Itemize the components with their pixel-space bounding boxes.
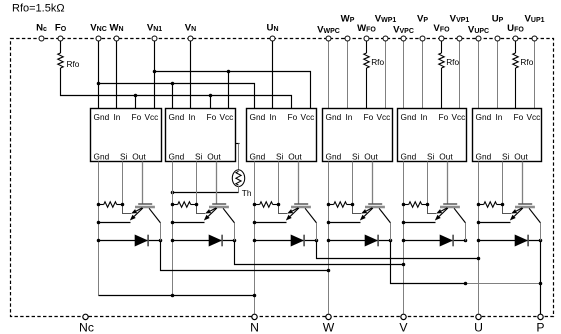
terminal node N (bottom)	[252, 314, 257, 319]
terminal node VNC (top)	[96, 36, 101, 41]
svg-text:V: V	[399, 321, 408, 334]
svg-text:In: In	[496, 112, 503, 122]
svg-text:Si: Si	[120, 151, 128, 161]
diode D4 freewheel	[329, 235, 391, 247]
junction rail/R6	[477, 203, 481, 207]
wire U5 Si pin	[427, 162, 429, 205]
diode D6 freewheel	[479, 235, 541, 247]
resistor Rfo (N-side fault output)	[60, 41, 62, 53]
wire U6 Gnd/emitter rail	[478, 162, 480, 314]
transistor Q6 IGBT	[503, 204, 541, 223]
transistor Q4 IGBT	[353, 204, 391, 223]
junction rail/anode D2	[171, 239, 175, 243]
terminal node WFO (top)	[364, 36, 369, 41]
wire U1 Gnd/emitter rail	[98, 162, 100, 296]
svg-text:Fo: Fo	[132, 112, 142, 122]
op-amp/driver IC U6	[473, 109, 542, 162]
svg-text:Gnd: Gnd	[250, 112, 266, 122]
wire Q3 collector to U node	[317, 241, 479, 259]
svg-text:Gnd: Gnd	[326, 112, 342, 122]
wire U5 Gnd/emitter rail	[403, 162, 405, 314]
svg-text:Out: Out	[364, 151, 378, 161]
svg-text:Rfo: Rfo	[446, 57, 459, 67]
terminal node Nc (top)	[39, 36, 44, 41]
svg-text:Th: Th	[242, 188, 252, 198]
svg-text:Out: Out	[207, 151, 221, 161]
diode D1 freewheel	[99, 235, 161, 247]
terminal node VVPC (top)	[401, 36, 406, 41]
op-amp/driver IC U4	[323, 109, 393, 162]
terminal node VWPC (top)	[326, 36, 331, 41]
svg-text:Vcc: Vcc	[220, 112, 234, 122]
junction rail/anode D5	[402, 239, 406, 243]
wire U6 Si pin	[502, 162, 504, 205]
svg-text:Si: Si	[276, 151, 284, 161]
junction rail/R4	[327, 203, 331, 207]
svg-text:Vcc: Vcc	[377, 112, 391, 122]
svg-text:Fo: Fo	[364, 112, 374, 122]
wire WP to U4 In	[347, 41, 349, 108]
wire Q1 collector to W node	[161, 241, 329, 271]
junction rail/anode D1	[97, 239, 101, 243]
junction rail/R2	[171, 203, 175, 207]
wire VN1 to U1 Vcc and Vcc bus to U2,U3	[154, 41, 156, 108]
wire VVPC to U5 Gnd	[403, 41, 405, 108]
svg-text:Gnd: Gnd	[326, 151, 342, 161]
terminal node UFO (top)	[513, 36, 518, 41]
junction cathode D1/collector Q1	[159, 239, 163, 243]
junction R5/Si	[426, 203, 430, 207]
svg-text:Nc: Nc	[79, 321, 94, 334]
op-amp/driver IC U3	[247, 109, 317, 162]
wire VVP1 to U5 Vcc	[459, 41, 461, 108]
svg-text:Si: Si	[352, 151, 360, 161]
svg-text:Fo: Fo	[439, 112, 449, 122]
junction rail/anode D3	[253, 239, 257, 243]
junction rail/R1	[97, 203, 101, 207]
resistor Rfo (WFO)	[364, 53, 369, 68]
wire UFO upper segment	[515, 41, 517, 53]
wire U2 Si pin	[196, 162, 198, 205]
wire U2 Out to gate of Q2	[216, 162, 218, 204]
svg-text:Rfo: Rfo	[371, 57, 384, 67]
transistor Q1 IGBT	[123, 204, 161, 223]
svg-text:Fo: Fo	[288, 112, 298, 122]
svg-text:N: N	[250, 321, 259, 334]
svg-text:W: W	[323, 321, 335, 334]
wire VN to U2 In	[190, 41, 192, 108]
svg-text:Si: Si	[195, 151, 203, 161]
junction rail/anode D6	[477, 239, 481, 243]
resistor Rfo (UFO)	[513, 53, 518, 68]
junction R2/Si	[195, 203, 199, 207]
diode D2 freewheel	[173, 235, 235, 247]
wire VP to U5 In	[422, 41, 424, 108]
wire emitter of Q3 to rail	[255, 222, 287, 224]
svg-text:Rfo: Rfo	[67, 59, 80, 69]
wire U1 Si pin	[122, 162, 124, 205]
junction rail/emitter Q3	[253, 221, 257, 225]
terminal node P (bottom)	[538, 314, 543, 319]
junction cathode D6/collector Q6	[539, 239, 543, 243]
junction R1/Si	[121, 203, 125, 207]
junction R3/Si	[277, 203, 281, 207]
terminal node WP (top)	[345, 36, 350, 41]
svg-text:Gnd: Gnd	[169, 151, 185, 161]
wire Q2 collector to V node	[235, 241, 404, 265]
terminal node VP (top)	[420, 36, 425, 41]
resistor R1 (sense)	[99, 202, 123, 207]
svg-text:Gnd: Gnd	[401, 112, 417, 122]
junction rail/emitter Q4	[327, 221, 331, 225]
wire collector Q2 vertical	[234, 223, 236, 241]
junction rail/emitter Q5	[402, 221, 406, 225]
svg-text:Gnd: Gnd	[401, 151, 417, 161]
wire U1 Out to gate of Q1	[142, 162, 144, 204]
svg-text:Si: Si	[427, 151, 435, 161]
terminal node VVP1 (top)	[457, 36, 462, 41]
thermistor Th	[232, 144, 244, 193]
svg-text:Gnd: Gnd	[476, 151, 492, 161]
op-amp/driver IC U2	[166, 109, 236, 162]
terminal node UN (top)	[270, 36, 275, 41]
wire collector Q1 vertical	[160, 223, 162, 241]
junction rail/anode D4	[327, 239, 331, 243]
svg-text:In: In	[346, 112, 353, 122]
svg-text:Out: Out	[132, 151, 146, 161]
op-amp/driver IC U5	[398, 109, 467, 162]
junction cathode D4/collector Q4	[389, 239, 393, 243]
junction rail/emitter Q2	[171, 221, 175, 225]
svg-text:U: U	[474, 321, 483, 334]
resistor R6 (sense)	[479, 202, 503, 207]
resistor R5 (sense)	[404, 202, 428, 207]
terminal node VUP1 (top)	[532, 36, 537, 41]
wire U3 Gnd/emitter rail	[254, 162, 256, 314]
terminal node U (bottom)	[476, 314, 481, 319]
wire Q6 collector to P terminal	[540, 241, 542, 315]
wire emitter of Q1 to rail	[99, 222, 131, 224]
terminal node VN (top)	[188, 36, 193, 41]
terminal node VWP1 (top)	[383, 36, 388, 41]
wire P bus (common high-side collector)	[391, 241, 467, 284]
junction rail/R5	[402, 203, 406, 207]
junction cathode D2/collector Q2	[233, 239, 237, 243]
wire UP to U6 In	[497, 41, 499, 108]
junction R4/Si	[351, 203, 355, 207]
svg-text:Out: Out	[439, 151, 453, 161]
terminal node FO (top)	[58, 36, 63, 41]
svg-text:Gnd: Gnd	[94, 151, 110, 161]
svg-text:In: In	[421, 112, 428, 122]
wire U5 Out to gate of Q5	[447, 162, 449, 204]
diode D5 freewheel	[404, 235, 466, 247]
wire U4 Gnd/emitter rail	[328, 162, 330, 314]
wire Fo bus to U1,U2,U3 Fo pins	[61, 68, 292, 109]
wire WFO to U4 Fo	[366, 68, 368, 109]
wire collector Q4 vertical	[390, 223, 392, 241]
junction rail/emitter Q1	[97, 221, 101, 225]
wire VFO to U5 Fo	[441, 68, 443, 109]
junction R6/Si	[501, 203, 505, 207]
resistor R2 (sense)	[173, 202, 197, 207]
transistor Q5 IGBT	[428, 204, 466, 223]
wire U6 Out to gate of Q6	[522, 162, 524, 204]
wire U4 Si pin	[352, 162, 354, 205]
svg-text:Gnd: Gnd	[250, 151, 266, 161]
svg-text:In: In	[114, 112, 121, 122]
wire VFO upper segment	[441, 41, 443, 53]
wire VNC to U1 Gnd and Gnd bus to U2,U3	[98, 41, 100, 108]
junction rail/R3	[253, 203, 257, 207]
svg-text:Vcc: Vcc	[145, 112, 159, 122]
wire U2 Gnd/emitter rail	[172, 162, 174, 296]
svg-text:Vcc: Vcc	[452, 112, 466, 122]
op-amp/driver IC U1	[91, 109, 162, 162]
terminal node W (bottom)	[326, 314, 331, 319]
svg-text:Out: Out	[288, 151, 302, 161]
terminal node Nc (bottom)	[83, 314, 88, 319]
svg-text:In: In	[270, 112, 277, 122]
wire WN to U1 In	[116, 41, 118, 108]
svg-text:Gnd: Gnd	[94, 112, 110, 122]
terminal node VFO (top)	[439, 36, 444, 41]
terminal node VUPC (top)	[476, 36, 481, 41]
wire Th to U2 Gnd rail	[173, 192, 239, 194]
resistor Rfo (VFO)	[439, 53, 444, 68]
wire emitter of Q6 to rail	[479, 222, 511, 224]
wire collector Q3 vertical	[316, 223, 318, 241]
wire U3 Si pin	[278, 162, 280, 205]
svg-text:Gnd: Gnd	[169, 112, 185, 122]
junction cathode D3/collector Q3	[315, 239, 319, 243]
svg-text:Rfo: Rfo	[520, 57, 533, 67]
svg-text:In: In	[189, 112, 196, 122]
junction cathode D5/collector Q5	[464, 239, 468, 243]
svg-text:Rfo=1.5kΩ: Rfo=1.5kΩ	[12, 3, 65, 15]
svg-text:Out: Out	[514, 151, 528, 161]
wire VWP1 to U4 Vcc	[385, 41, 387, 108]
wire collector Q5 vertical	[465, 223, 467, 241]
svg-text:P: P	[536, 321, 544, 334]
wire VUPC to U6 Gnd	[478, 41, 480, 108]
wire UFO to U6 Fo	[515, 68, 517, 109]
svg-text:Gnd: Gnd	[476, 112, 492, 122]
wire VUP1 to U6 Vcc	[534, 41, 536, 108]
wire collector Q6 vertical	[540, 223, 542, 241]
transistor Q2 IGBT	[197, 204, 235, 223]
resistor R4 (sense)	[329, 202, 353, 207]
wire WFO upper segment	[366, 41, 368, 53]
svg-text:Vcc: Vcc	[527, 112, 541, 122]
terminal node VN1 (top)	[152, 36, 157, 41]
transistor Q3 IGBT	[279, 204, 317, 223]
svg-text:Fo: Fo	[207, 112, 217, 122]
resistor R3 (sense)	[255, 202, 279, 207]
junction rail/emitter Q6	[477, 221, 481, 225]
svg-text:Fo: Fo	[514, 112, 524, 122]
svg-text:Si: Si	[502, 151, 510, 161]
terminal node UP (top)	[495, 36, 500, 41]
wire emitter of Q2 to rail	[173, 222, 205, 224]
wire emitter of Q4 to rail	[329, 222, 361, 224]
wire emitter of Q5 to rail	[404, 222, 436, 224]
terminal node WN (top)	[114, 36, 119, 41]
wire U4 Out to gate of Q4	[372, 162, 374, 204]
diode D3 freewheel	[255, 235, 317, 247]
svg-text:Vcc: Vcc	[301, 112, 315, 122]
wire UN to U3 In	[272, 41, 274, 108]
terminal node V (bottom)	[401, 314, 406, 319]
wire N bus (common low-side emitter)	[99, 295, 255, 297]
wire U3 Out to gate of Q3	[298, 162, 300, 204]
wire VWPC to U4 Gnd	[328, 41, 330, 108]
